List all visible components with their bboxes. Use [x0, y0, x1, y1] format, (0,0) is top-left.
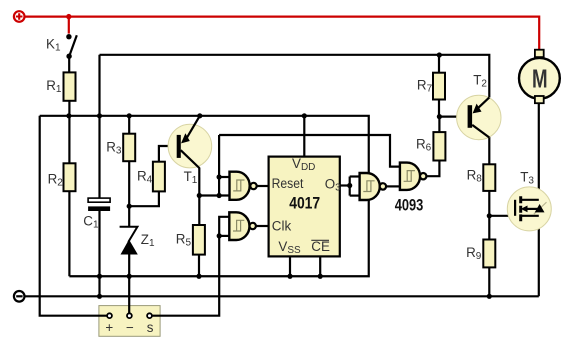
svg-text:Clk: Clk — [272, 218, 292, 233]
svg-text:s: s — [147, 320, 154, 335]
svg-text:−: − — [126, 320, 134, 335]
svg-text:4093: 4093 — [395, 195, 424, 214]
svg-text:CE: CE — [311, 239, 330, 254]
svg-text:Reset: Reset — [272, 176, 304, 191]
svg-text:M: M — [532, 63, 548, 93]
svg-text:4017: 4017 — [289, 193, 320, 212]
svg-text:+: + — [105, 320, 113, 335]
